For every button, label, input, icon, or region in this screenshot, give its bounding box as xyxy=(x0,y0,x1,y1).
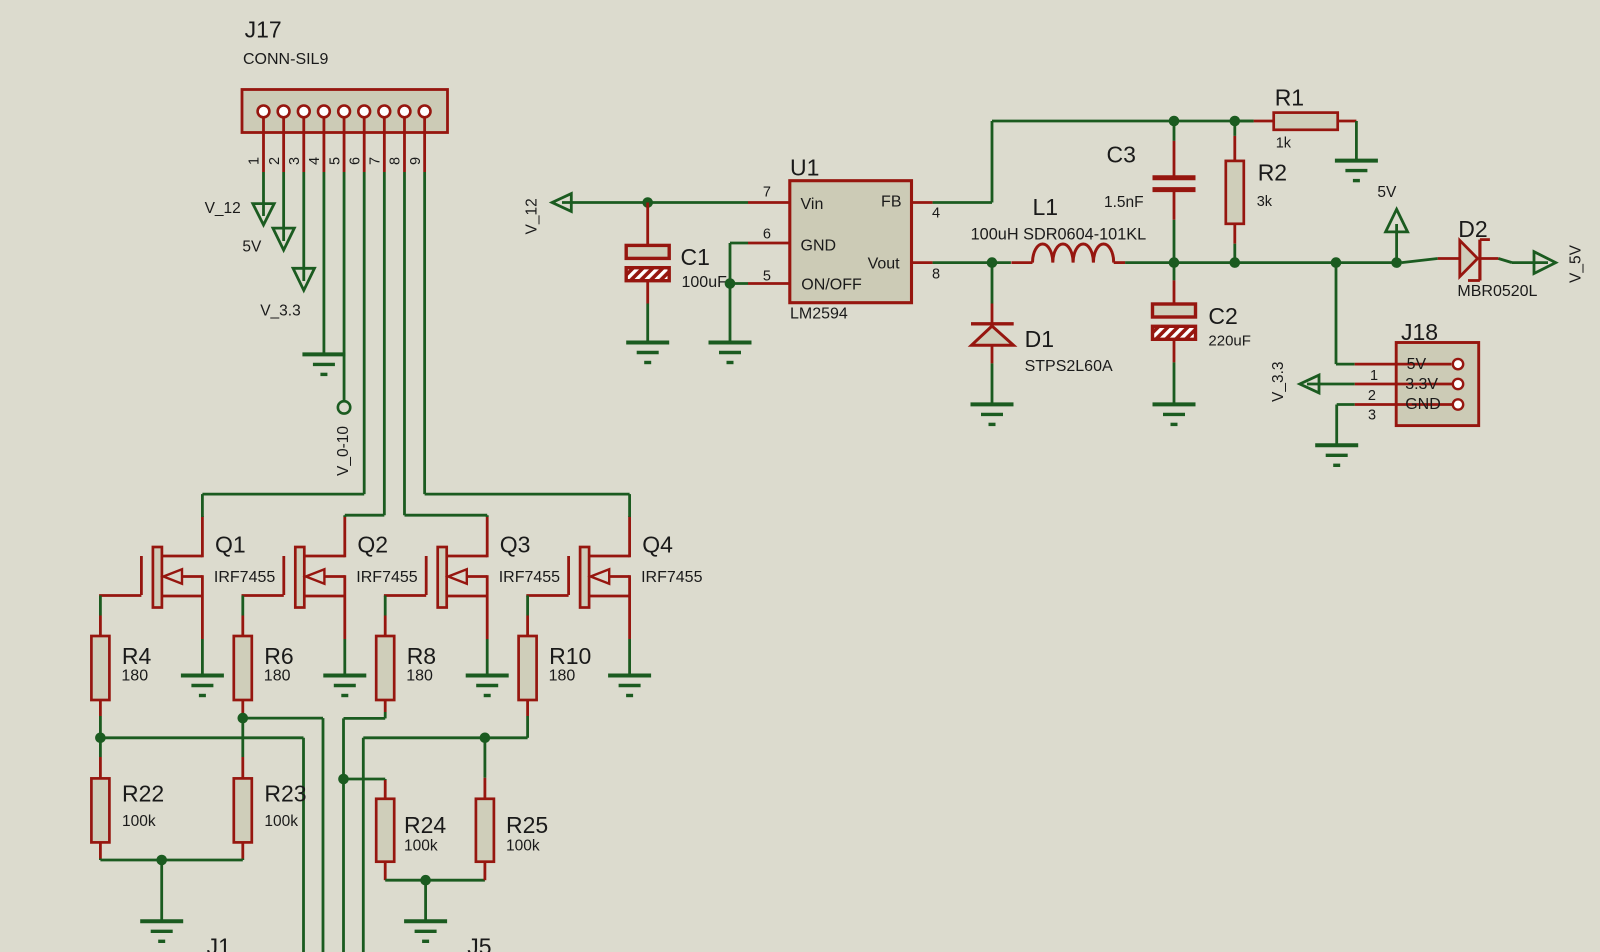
svg-text:180: 180 xyxy=(264,668,291,685)
svg-text:4: 4 xyxy=(307,157,323,165)
svg-text:STPS2L60A: STPS2L60A xyxy=(1025,358,1113,375)
svg-text:5V: 5V xyxy=(1407,356,1427,373)
svg-text:2: 2 xyxy=(1368,388,1376,404)
svg-text:ON/OFF: ON/OFF xyxy=(801,277,862,294)
svg-text:4: 4 xyxy=(932,206,940,222)
svg-text:5: 5 xyxy=(763,268,771,284)
svg-text:180: 180 xyxy=(406,668,433,685)
svg-text:C2: C2 xyxy=(1208,303,1237,329)
svg-text:1k: 1k xyxy=(1276,136,1292,152)
svg-text:3k: 3k xyxy=(1257,194,1273,210)
svg-text:MBR0520L: MBR0520L xyxy=(1457,283,1537,300)
svg-text:8: 8 xyxy=(388,157,404,165)
svg-text:C1: C1 xyxy=(681,244,710,270)
svg-text:3: 3 xyxy=(1368,408,1376,424)
svg-text:L1: L1 xyxy=(1033,194,1059,220)
svg-text:9: 9 xyxy=(408,157,424,165)
svg-text:100k: 100k xyxy=(506,838,540,855)
svg-text:100k: 100k xyxy=(404,838,438,855)
svg-text:V_12: V_12 xyxy=(205,200,241,217)
svg-text:J18: J18 xyxy=(1401,319,1438,345)
svg-text:R24: R24 xyxy=(404,812,446,838)
svg-text:6: 6 xyxy=(347,157,363,165)
svg-text:2: 2 xyxy=(267,157,283,165)
svg-text:V_5V: V_5V xyxy=(1568,244,1585,283)
svg-text:Q4: Q4 xyxy=(642,532,673,558)
svg-text:Q1: Q1 xyxy=(215,532,246,558)
svg-text:R2: R2 xyxy=(1258,160,1287,186)
svg-text:5V: 5V xyxy=(242,239,262,256)
svg-text:Vout: Vout xyxy=(868,256,901,273)
svg-text:5: 5 xyxy=(327,157,343,165)
svg-text:100k: 100k xyxy=(264,813,298,830)
svg-text:R6: R6 xyxy=(264,643,293,669)
svg-text:V_12: V_12 xyxy=(524,198,541,234)
svg-text:J1: J1 xyxy=(207,934,231,952)
svg-text:V_3.3: V_3.3 xyxy=(1270,361,1287,402)
svg-text:7: 7 xyxy=(368,157,384,165)
svg-text:R8: R8 xyxy=(407,643,436,669)
svg-text:3.3V: 3.3V xyxy=(1405,376,1438,393)
svg-text:IRF7455: IRF7455 xyxy=(214,569,275,586)
svg-text:3: 3 xyxy=(287,157,303,165)
svg-text:IRF7455: IRF7455 xyxy=(356,569,417,586)
svg-text:GND: GND xyxy=(1405,396,1441,413)
svg-text:C3: C3 xyxy=(1107,142,1136,168)
svg-text:R22: R22 xyxy=(122,781,164,807)
svg-text:IRF7455: IRF7455 xyxy=(499,569,560,586)
svg-text:7: 7 xyxy=(763,184,771,200)
svg-text:R1: R1 xyxy=(1275,85,1304,111)
svg-text:D2: D2 xyxy=(1458,216,1487,242)
svg-text:1: 1 xyxy=(1370,368,1378,384)
svg-text:R10: R10 xyxy=(549,643,591,669)
svg-text:IRF7455: IRF7455 xyxy=(641,569,702,586)
svg-text:1: 1 xyxy=(247,157,263,165)
svg-text:GND: GND xyxy=(801,238,837,255)
svg-text:1.5nF: 1.5nF xyxy=(1104,194,1144,211)
svg-text:U1: U1 xyxy=(790,155,819,181)
svg-text:100k: 100k xyxy=(122,813,156,830)
svg-text:V_0-10: V_0-10 xyxy=(335,426,352,476)
svg-text:J5: J5 xyxy=(467,934,491,952)
svg-text:8: 8 xyxy=(932,267,940,283)
svg-text:5V: 5V xyxy=(1377,184,1397,201)
svg-text:R25: R25 xyxy=(506,812,548,838)
svg-text:Vin: Vin xyxy=(801,196,824,213)
svg-text:Q2: Q2 xyxy=(357,532,388,558)
svg-text:6: 6 xyxy=(763,226,771,242)
svg-text:180: 180 xyxy=(121,668,148,685)
svg-text:J17: J17 xyxy=(245,17,282,43)
svg-text:100uF: 100uF xyxy=(682,274,728,291)
svg-text:FB: FB xyxy=(881,194,901,211)
svg-text:LM2594: LM2594 xyxy=(790,306,848,323)
svg-text:R4: R4 xyxy=(122,643,152,669)
svg-text:D1: D1 xyxy=(1025,326,1054,352)
svg-text:CONN-SIL9: CONN-SIL9 xyxy=(243,51,328,68)
svg-text:V_3.3: V_3.3 xyxy=(260,303,301,320)
svg-text:Q3: Q3 xyxy=(500,532,531,558)
svg-text:220uF: 220uF xyxy=(1208,333,1251,350)
svg-text:180: 180 xyxy=(549,668,576,685)
svg-text:100uH SDR0604-101KL: 100uH SDR0604-101KL xyxy=(971,226,1147,244)
svg-text:R23: R23 xyxy=(264,781,306,807)
